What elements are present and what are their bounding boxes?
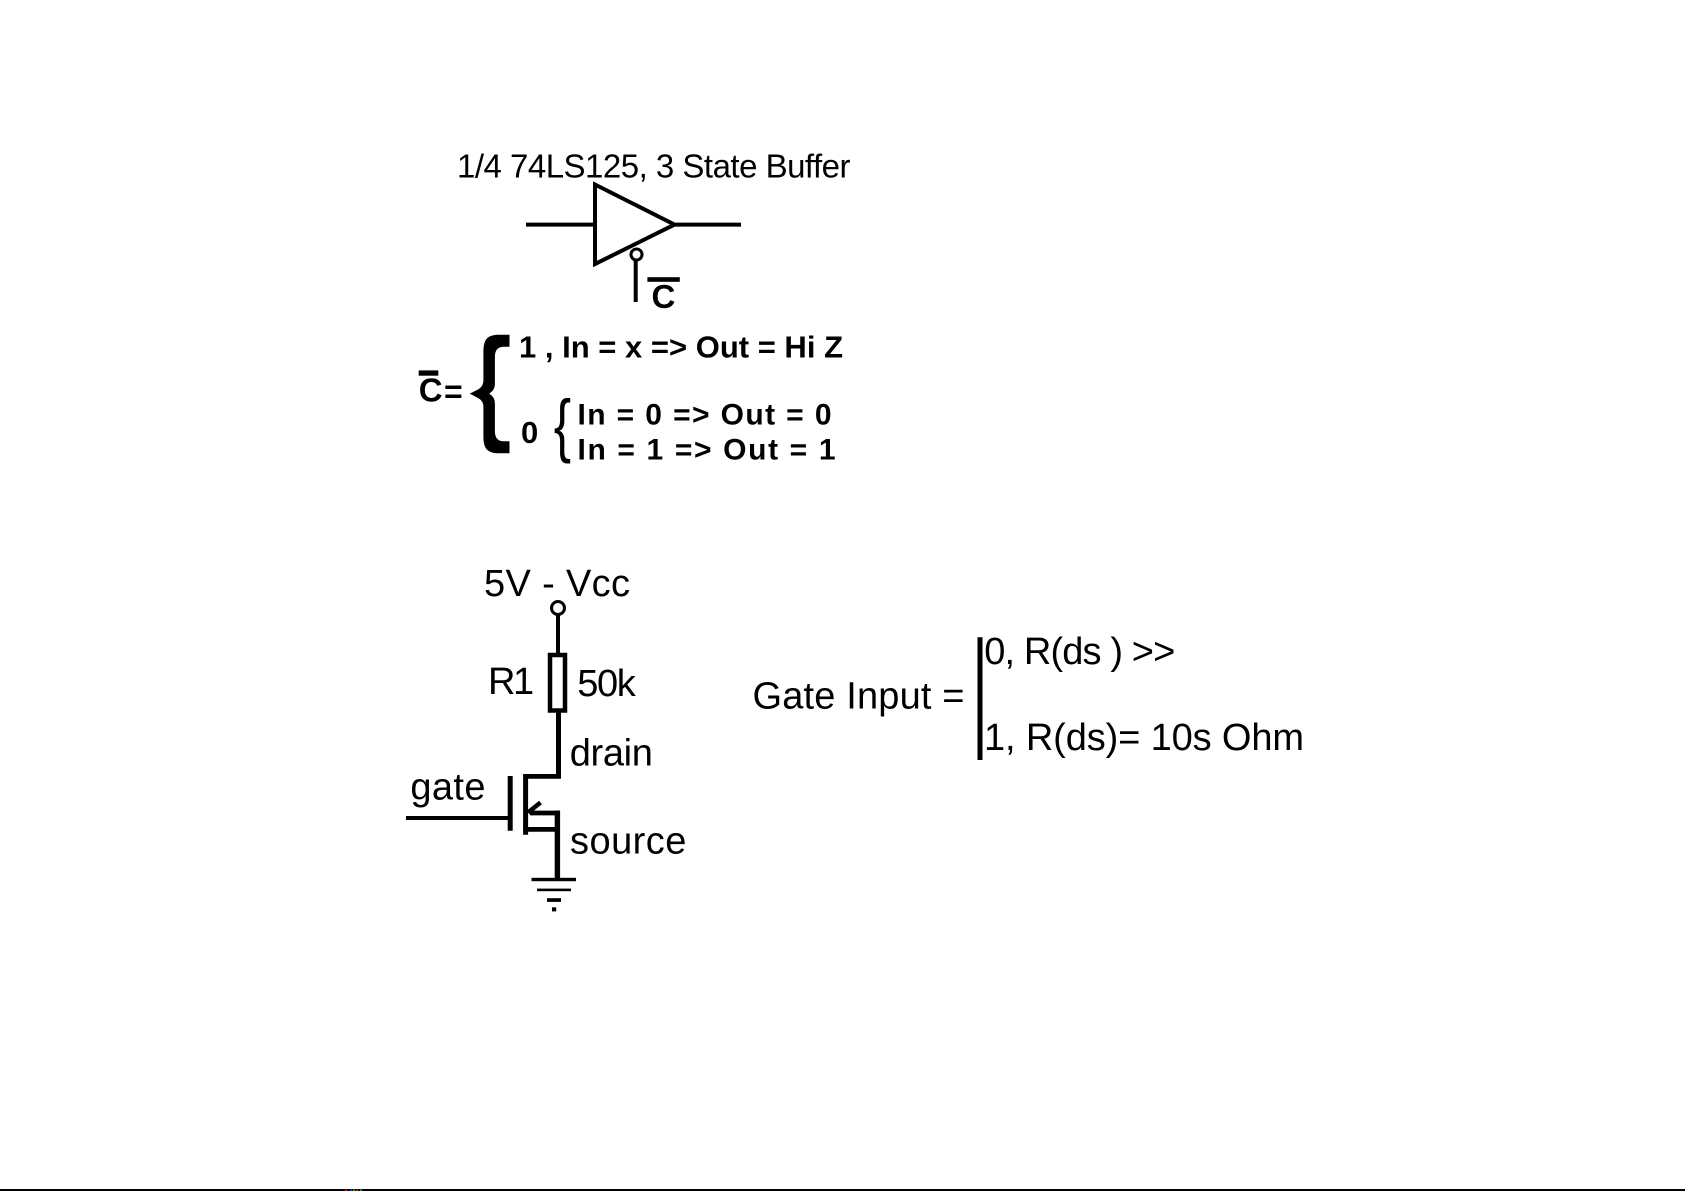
label: overbar of C (equation): [419, 370, 439, 375]
label: overbar of C (buffer enable): [647, 277, 679, 282]
wire: Q1 drain connection: [523, 774, 561, 779]
wire: buffer output: [675, 223, 742, 227]
svg-text:R: R: [488, 661, 515, 703]
buffer U1 enable inverting bubble: [631, 249, 642, 260]
svg-text:drain: drain: [570, 733, 653, 775]
transistor Q1 body arrow: [528, 803, 541, 813]
node Vcc terminal: [552, 602, 565, 615]
wire: Vcc to resistor: [556, 616, 560, 656]
wire: buffer input: [526, 223, 597, 227]
wire: resistor to drain: [556, 711, 561, 778]
buffer U1 (1/4 74LS125 tri-state) triangle: [595, 185, 675, 265]
svg-text:0, R(ds ) >>: 0, R(ds ) >>: [984, 631, 1175, 673]
svg-text:gate: gate: [410, 767, 485, 809]
ground symbol bar 4 (dot): [552, 907, 556, 911]
svg-text:Gate Input =: Gate Input =: [753, 676, 965, 718]
ground symbol bar 1: [532, 878, 577, 881]
svg-text:5V - Vcc: 5V - Vcc: [484, 563, 630, 605]
wire: Q1 body connection: [530, 811, 560, 816]
svg-text:C: C: [652, 278, 676, 315]
wire: gate input: [406, 816, 508, 820]
brace: large curly brace: [470, 335, 510, 454]
transistor Q1 channel bar: [523, 774, 528, 835]
svg-text:1/4 74LS125, 3 State Buffer: 1/4 74LS125, 3 State Buffer: [457, 148, 851, 185]
svg-text:{: {: [554, 386, 571, 465]
svg-text:source: source: [570, 821, 686, 863]
bottom screen edge line: [0, 1189, 1685, 1191]
svg-text:1 , In = x => Out = Hi Z: 1 , In = x => Out = Hi Z: [519, 330, 843, 365]
wire: source to ground: [555, 811, 560, 878]
ground symbol bar 3: [547, 898, 561, 902]
svg-text:=: =: [444, 374, 463, 410]
svg-text:C: C: [419, 371, 443, 408]
wire: Q1 source connection: [523, 827, 560, 832]
case bracket bar (Gate Input): [978, 637, 983, 760]
svg-text:1: 1: [513, 661, 534, 703]
ground symbol bar 2: [537, 889, 571, 892]
transistor Q1 gate electrode bar: [508, 776, 513, 831]
resistor R1: [550, 655, 565, 711]
svg-text:0: 0: [521, 415, 538, 450]
wire: enable control C: [634, 261, 638, 302]
svg-text:50k: 50k: [577, 663, 637, 705]
label: R1 reference designator: [488, 661, 534, 703]
bottom edge colored pixels: [345, 1190, 362, 1192]
svg-text:1, R(ds)= 10s Ohm: 1, R(ds)= 10s Ohm: [984, 717, 1304, 759]
